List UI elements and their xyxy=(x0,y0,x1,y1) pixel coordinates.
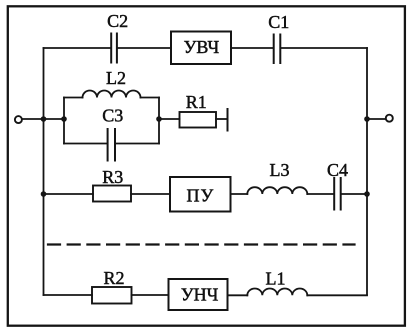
wire: R3 to PU box xyxy=(131,193,170,195)
wire: R2 to UNCh box xyxy=(132,294,169,296)
tank circuit frame (L2 / C3 parallel) xyxy=(63,98,65,144)
wire: C1 to right rail xyxy=(281,47,367,49)
wire: left rail to R2 xyxy=(44,294,93,296)
wire: C4 to right rail xyxy=(342,193,368,195)
resistor R2 xyxy=(92,287,132,304)
wire: C2 to UVCh box xyxy=(118,47,171,49)
wire: L3 to C4 xyxy=(307,193,333,195)
wire: right rail to right terminal xyxy=(367,118,386,120)
left input terminal xyxy=(15,116,22,123)
wire: left rail to R3 xyxy=(44,193,94,195)
terminal stub bar xyxy=(227,109,229,131)
capacitor C4 xyxy=(334,178,341,210)
right output terminal xyxy=(386,115,393,122)
wire: R1 to stub xyxy=(216,118,228,120)
wire: left terminal to tank xyxy=(21,118,64,120)
block PU (ПУ) xyxy=(170,177,231,212)
wire: UNCh to L1 xyxy=(228,294,248,296)
wire: UVCh to C1 xyxy=(231,47,273,49)
capacitor C2 xyxy=(111,34,117,63)
svg-text:C1: C1 xyxy=(268,12,289,32)
dashed separator line xyxy=(48,243,355,245)
inductor L3 xyxy=(247,187,307,194)
wire: left rail xyxy=(43,48,45,295)
wire: tank to R1 xyxy=(159,118,180,120)
svg-text:ПУ: ПУ xyxy=(187,186,215,206)
capacitor C3 xyxy=(108,129,115,161)
wire: tank bottom right xyxy=(116,143,159,145)
capacitor C1 xyxy=(274,35,281,64)
svg-text:C4: C4 xyxy=(327,160,348,180)
svg-text:УВЧ: УВЧ xyxy=(184,37,220,57)
block UNCh (УНЧ) xyxy=(169,279,228,310)
resistor R1 xyxy=(180,112,217,128)
svg-text:R3: R3 xyxy=(102,167,123,187)
inductor L1 xyxy=(247,289,307,296)
svg-text:R2: R2 xyxy=(103,268,124,288)
junction node dots xyxy=(41,116,370,197)
wire: right rail xyxy=(366,48,368,295)
svg-text:R1: R1 xyxy=(186,92,207,112)
block UVCh (УВЧ) xyxy=(171,32,231,65)
wire: L1 to right rail xyxy=(307,294,367,296)
svg-text:УНЧ: УНЧ xyxy=(181,285,219,305)
svg-text:C3: C3 xyxy=(102,106,123,126)
svg-text:L3: L3 xyxy=(270,160,290,180)
svg-text:L1: L1 xyxy=(266,269,286,289)
wire: top row left of C2 xyxy=(44,47,111,49)
svg-text:L2: L2 xyxy=(106,68,126,88)
wire: PU to L3 xyxy=(231,193,248,195)
wire: tank bottom left xyxy=(64,143,107,145)
resistor R3 xyxy=(93,186,131,202)
svg-text:C2: C2 xyxy=(107,11,128,31)
inductor L2 xyxy=(83,91,141,98)
